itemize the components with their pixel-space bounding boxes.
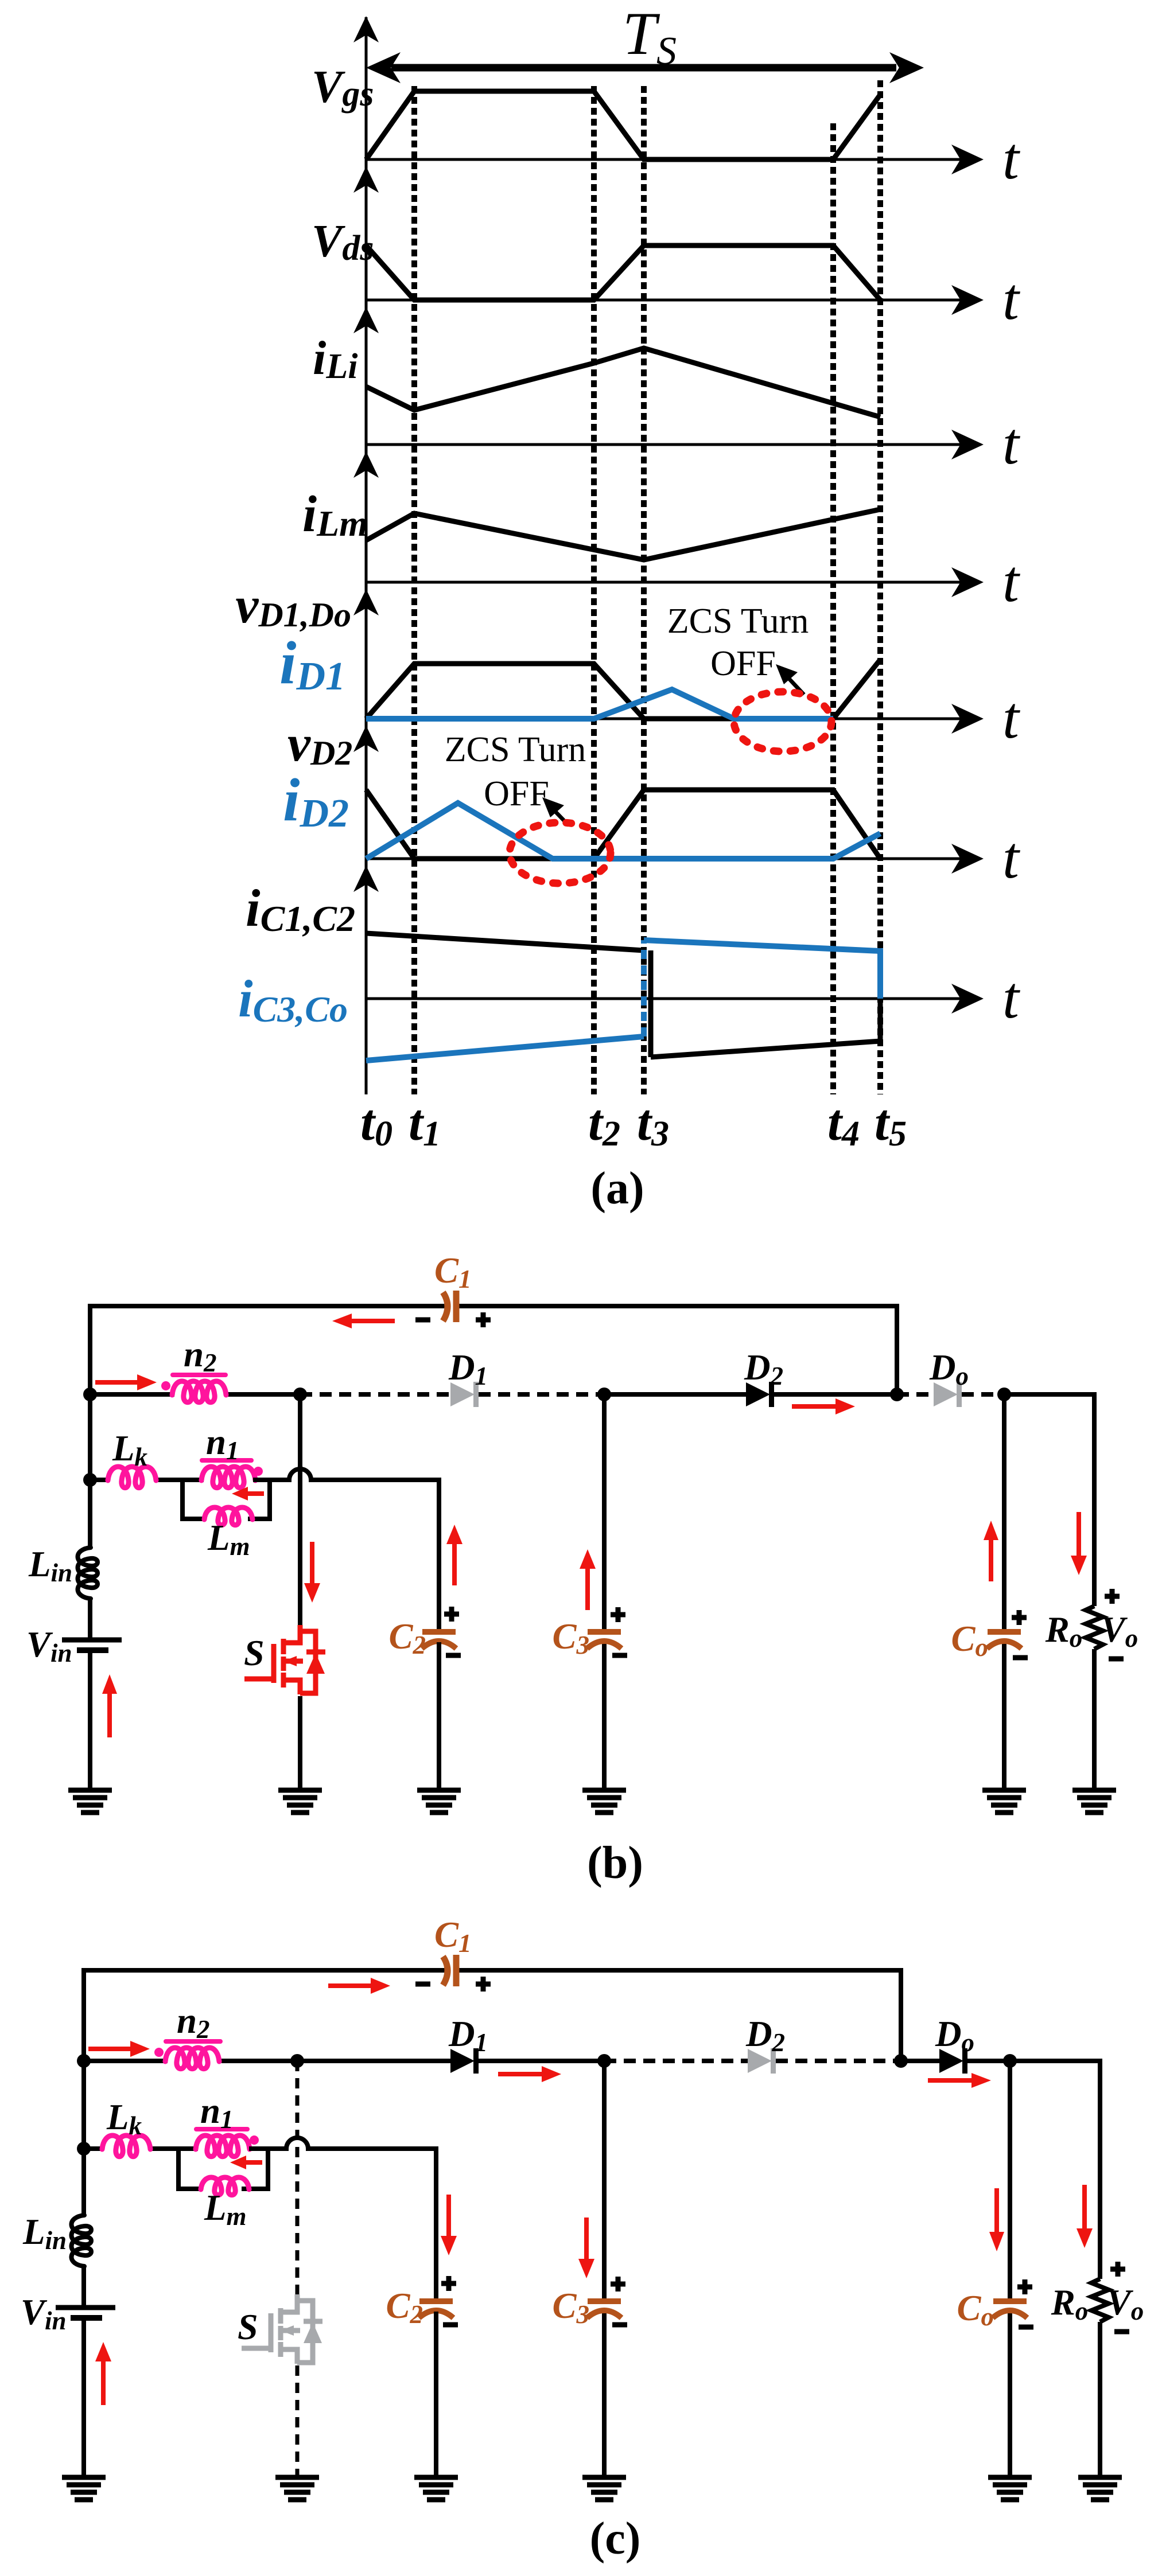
gridline t3	[641, 86, 647, 1094]
ground C3 (c)	[582, 2475, 626, 2480]
capacitor C3 (b)	[588, 1629, 621, 1635]
wire C2 to ground (c)	[434, 2312, 438, 2477]
capacitor C2 (b)	[422, 1629, 456, 1635]
node n2 row (c)	[77, 2054, 91, 2068]
svg-text:t: t	[1002, 126, 1020, 192]
resistor Ro (b)	[1086, 1606, 1103, 1649]
svg-text:ZCS Turn: ZCS Turn	[445, 730, 586, 769]
wire n2 row (b)	[90, 1392, 174, 1397]
svg-text:S: S	[244, 1632, 265, 1673]
inductor Lk (c)	[102, 2135, 150, 2157]
y-axis arrowhead (ilm row)	[353, 451, 379, 478]
ground Co (c)	[988, 2475, 1032, 2480]
ground input (c)	[62, 2475, 106, 2480]
current arrow Lm (b)	[244, 1491, 264, 1496]
ground Ro (b)	[1072, 1788, 1116, 1793]
wire S branch drain (b)	[298, 1394, 302, 1625]
wire S-junction to D1 to C3 node (c)	[297, 2059, 450, 2063]
y-axis arrowhead (ic row)	[353, 866, 379, 892]
inductor Lm (magnetizing) (b)	[204, 1507, 252, 1525]
current arrow C2 (b)	[452, 1540, 457, 1585]
current arrow C3 (b)	[585, 1564, 590, 1610]
ground C2 (c)	[414, 2475, 458, 2480]
node S branch (c)	[290, 2054, 304, 2068]
ground S (b)	[278, 1788, 322, 1793]
current arrow C2 (c)	[446, 2195, 451, 2240]
current arrow S branch (b)	[310, 1542, 314, 1588]
polarity Vo (b)	[1105, 1589, 1120, 1604]
current arrow C1 (c)	[328, 1983, 375, 1988]
waveform iLi	[366, 348, 880, 417]
node C3 (c)	[597, 2054, 611, 2068]
capacitor Co (b)	[988, 1629, 1021, 1635]
gridline t1	[411, 86, 417, 1094]
gridline t2	[591, 86, 597, 1094]
inductor Lm (magnetizing) (c)	[201, 2177, 249, 2195]
node Co (c)	[1003, 2054, 1017, 2068]
diode D2 (c)	[748, 2049, 772, 2073]
transistor S (MOSFET) (c)	[242, 2294, 313, 2364]
diode D2 (b)	[746, 1382, 770, 1406]
wire C2 to ground (b)	[437, 1642, 441, 1790]
node C1 corner (b)	[890, 1388, 904, 1401]
x-axis (ili row)	[366, 443, 962, 446]
phase dot n2 (c)	[154, 2048, 164, 2057]
current arrow C3 (c)	[584, 2218, 589, 2263]
wire top C1 loop (b)	[90, 1306, 897, 1394]
transformer winding n1 (c)	[196, 2135, 250, 2157]
gridline t5	[877, 80, 883, 1094]
current arrow n2 (c)	[88, 2047, 135, 2051]
battery Vin (b)	[62, 1638, 122, 1643]
wire S-junction to D1 to C3 node (b)	[300, 1392, 450, 1397]
waveform iLm	[366, 509, 880, 560]
diode D1 (b)	[450, 1382, 475, 1406]
current arrow C1 (b)	[347, 1319, 395, 1323]
gridline t4	[830, 123, 836, 1094]
svg-text:OFF: OFF	[484, 774, 549, 813]
polarity Vo (c)	[1110, 2262, 1125, 2277]
ground C2 (b)	[417, 1788, 461, 1793]
wire n2 row (c)	[84, 2059, 168, 2063]
diode D1 (c)	[450, 2049, 475, 2073]
Ts period double arrow	[391, 64, 896, 72]
capacitor C1 (b)	[443, 1292, 448, 1321]
wire C3 branch (b)	[602, 1394, 607, 1629]
wire S source to ground (b)	[298, 1696, 302, 1790]
current arrow Co (c)	[994, 2188, 999, 2237]
svg-text:t: t	[1002, 825, 1020, 891]
polarity C3 (b)	[611, 1607, 625, 1622]
current arrow Vin (c)	[101, 2356, 106, 2405]
battery Vin (c)	[56, 2305, 115, 2310]
inductor Lk (b)	[108, 1467, 156, 1488]
core bar n2 (b)	[173, 1373, 226, 1377]
wire Vin to ground (b)	[88, 1650, 92, 1790]
waveform iD2 (blue)	[366, 803, 880, 859]
arrow ZCS (D2)	[554, 810, 569, 825]
polarity C2 (c)	[441, 2276, 456, 2291]
svg-text:ZCS Turn: ZCS Turn	[667, 602, 809, 641]
y-axis arrowhead (vd2 row)	[353, 726, 379, 752]
x-axis (ic row)	[366, 997, 962, 1000]
arrow ZCS (D1)	[787, 677, 804, 695]
node Lk row (c)	[77, 2142, 91, 2156]
phase dot n2 (b)	[161, 1381, 170, 1390]
x-axis (ilm row)	[366, 581, 962, 584]
diode Do (b)	[934, 1382, 958, 1406]
wire Lin to Vin (b)	[88, 1599, 92, 1640]
wire S branch drain (c)	[296, 2061, 300, 2294]
inductor Lin (b)	[78, 1548, 98, 1599]
current arrow Vo (c)	[1082, 2185, 1087, 2234]
waveform vD2 (black)	[366, 790, 880, 859]
capacitor Co (c)	[993, 2298, 1027, 2304]
waveform iC3,Co (blue)	[366, 1036, 644, 1061]
node S branch (b)	[293, 1388, 307, 1401]
svg-text:t: t	[1002, 411, 1020, 477]
polarity C1 (c)	[415, 1982, 430, 1987]
waveform iD1 (blue)	[366, 689, 833, 719]
resistor Ro (c)	[1091, 2279, 1109, 2322]
capacitor C2 (c)	[419, 2298, 453, 2304]
wire left rail (b)	[88, 1394, 92, 1548]
wire C3 node to D2 to C1 corner (c)	[604, 2059, 748, 2063]
wire Co branch (c)	[1008, 2061, 1012, 2298]
y-axis arrowhead (vds row)	[353, 166, 379, 193]
node Lk row (b)	[83, 1473, 97, 1487]
current arrow Vin (b)	[107, 1689, 112, 1737]
node n2 row (b)	[83, 1388, 97, 1401]
ground S (c)	[275, 2475, 319, 2480]
ellipse ZCS (D2)	[510, 823, 611, 883]
x-axis (vd2 row)	[366, 858, 962, 860]
polarity Co (c)	[1017, 2279, 1032, 2294]
transistor S (MOSFET) (b)	[244, 1625, 316, 1694]
phase dot n1 (c)	[250, 2135, 259, 2145]
inductor Lin (c)	[72, 2215, 92, 2266]
ground Co (b)	[982, 1788, 1026, 1793]
ground C3 (b)	[582, 1788, 626, 1793]
y-axis arrowhead (vgs row)	[353, 16, 379, 42]
transformer winding n2 (b)	[172, 1381, 226, 1402]
wire Lk row (b)	[90, 1478, 110, 1482]
dashed jump iC3,Co at t3 (blue)	[641, 940, 647, 1036]
wire Co node to Ro branch (c)	[1010, 2061, 1100, 2279]
wire Lk row (c)	[84, 2146, 104, 2151]
transformer winding n2 (c)	[165, 2048, 219, 2069]
capacitor C1 (c)	[443, 1957, 448, 1985]
waveform iC3,Co after t3 (blue)	[644, 940, 880, 999]
wire C1 corner to Do to Co node (c)	[901, 2059, 939, 2063]
svg-text:t: t	[1002, 548, 1020, 614]
wire C1 corner to Do to Co node (b)	[897, 1392, 934, 1397]
wire left rail (c)	[81, 2061, 86, 2215]
diode Do (c)	[939, 2049, 963, 2073]
svg-text:S: S	[238, 2306, 258, 2347]
node C1 corner (c)	[894, 2054, 908, 2068]
x-axis (vgs row)	[366, 158, 962, 161]
ground Ro (c)	[1078, 2475, 1122, 2480]
transformer winding n1 (b)	[201, 1467, 255, 1488]
node C3 (b)	[597, 1388, 611, 1401]
polarity C1 (b)	[415, 1318, 430, 1323]
x-axis (vds row)	[366, 299, 962, 302]
svg-text:t: t	[1002, 965, 1020, 1031]
waveform iC1,C2 (black)	[366, 933, 644, 950]
core bar n1 (c)	[196, 2127, 247, 2131]
core bar n1 (b)	[202, 1458, 251, 1463]
current arrow after D1 (c)	[498, 2072, 546, 2076]
svg-text:(a): (a)	[590, 1163, 644, 1214]
node Co (b)	[997, 1388, 1011, 1401]
ellipse ZCS (D1)	[734, 692, 831, 751]
y-axis arrowhead (vd1 row)	[353, 589, 379, 615]
wire n1 to C2 corner with crossover hump (c)	[249, 2138, 436, 2298]
ground input (b)	[68, 1788, 112, 1793]
waveform Vgs	[366, 91, 880, 159]
wire C3 node to D2 to C1 corner (b)	[604, 1392, 746, 1397]
waveform Vds	[366, 245, 880, 300]
wire Vin to ground (c)	[81, 2318, 86, 2477]
wire Lin to Vin (c)	[81, 2266, 86, 2308]
phase dot n1 (b)	[254, 1467, 263, 1476]
waveform vD1,Do (black)	[366, 660, 880, 719]
wire Lm parallel loop (b)	[182, 1480, 270, 1519]
polarity C2 (b)	[444, 1607, 459, 1622]
gridline t0 (time axis vertical)	[365, 17, 368, 1094]
wire n1 to C2 corner with crossover hump (b)	[253, 1469, 439, 1629]
current arrow Co (b)	[989, 1535, 993, 1581]
svg-text:t: t	[1002, 685, 1020, 751]
svg-text:t: t	[1002, 266, 1020, 332]
wire Ro to ground (b)	[1092, 1649, 1097, 1790]
x-axis (vd1 row)	[366, 718, 962, 720]
current arrow Lm (c)	[242, 2160, 262, 2165]
wire Co branch (b)	[1002, 1394, 1006, 1629]
polarity Co (b)	[1012, 1610, 1027, 1625]
wire Ro to ground (c)	[1098, 2322, 1102, 2477]
current arrow Vo (b)	[1076, 1512, 1081, 1560]
svg-text:(c): (c)	[590, 2513, 641, 2564]
wire Co node to Ro branch (b)	[1004, 1394, 1094, 1606]
polarity C3 (c)	[611, 2277, 625, 2291]
current arrow n2 (b)	[95, 1380, 142, 1385]
current arrow after Do (c)	[928, 2078, 977, 2083]
capacitor C3 (c)	[588, 2298, 621, 2304]
svg-text:OFF: OFF	[710, 644, 776, 683]
wire S source to ground (c)	[296, 2365, 300, 2477]
wire C3 branch (c)	[602, 2061, 607, 2298]
svg-text:(b): (b)	[587, 1838, 643, 1888]
y-axis arrowhead (ili row)	[353, 307, 379, 333]
core bar n2 (c)	[166, 2039, 220, 2044]
wire Lm parallel loop (c)	[178, 2149, 268, 2189]
current arrow after D2 (b)	[792, 1404, 840, 1409]
wire top C1 loop (c)	[84, 1970, 901, 2061]
